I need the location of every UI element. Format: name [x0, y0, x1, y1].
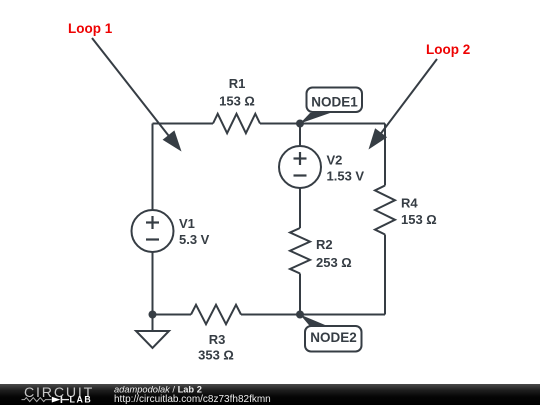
wire right rail top: [384, 124, 386, 186]
annotation Loop 1: [68, 21, 182, 152]
svg-text:153 Ω: 153 Ω: [401, 212, 437, 227]
wire right rail bottom: [384, 235, 386, 315]
node NODE1 dot: [296, 120, 304, 128]
svg-text:253 Ω: 253 Ω: [316, 255, 352, 270]
ground: [136, 315, 169, 349]
svg-text:V1: V1: [179, 216, 195, 231]
footer logo resistor-diode glyph: [22, 396, 70, 403]
svg-text:http://circuitlab.com/c8z73fh8: http://circuitlab.com/c8z73fh82fkmn: [114, 394, 271, 405]
node NODE1 callout: [300, 88, 362, 124]
resistor R1: [213, 114, 260, 133]
resistor R3: [191, 305, 241, 324]
footer title: [114, 384, 271, 405]
svg-text:NODE1: NODE1: [311, 95, 358, 110]
wire middle branch bottom: [299, 274, 301, 315]
label V1: [179, 216, 210, 247]
wire bottom right: [241, 314, 385, 316]
svg-text:NODE2: NODE2: [310, 330, 357, 345]
label V2: [327, 153, 365, 184]
annotation Loop 2: [369, 42, 471, 150]
label R4: [401, 196, 437, 228]
svg-text:Loop 2: Loop 2: [426, 42, 470, 57]
svg-text:R3: R3: [209, 332, 226, 347]
svg-text:1.53 V: 1.53 V: [327, 169, 365, 184]
wire top: [153, 123, 214, 125]
voltage source V1: [132, 210, 174, 252]
wire middle branch top: [299, 124, 301, 147]
wire bottom left: [153, 314, 192, 316]
wire middle branch mid: [299, 188, 301, 228]
svg-text:353 Ω: 353 Ω: [198, 348, 234, 363]
voltage source V2: [279, 146, 321, 188]
svg-text:R2: R2: [316, 237, 333, 252]
node NODE2 callout: [300, 315, 362, 352]
node NODE2 dot: [296, 311, 304, 319]
wire top right: [260, 123, 385, 125]
svg-text:Loop 1: Loop 1: [68, 21, 113, 36]
svg-text:adampodolak / Lab 2: adampodolak / Lab 2: [114, 384, 202, 394]
resistor R4: [375, 186, 395, 235]
node ground junction dot: [149, 311, 157, 319]
resistor R2: [290, 228, 310, 274]
svg-text:V2: V2: [327, 153, 343, 168]
label R2: [316, 237, 352, 270]
svg-text:R1: R1: [229, 76, 246, 91]
label R3: [198, 332, 234, 363]
footer bar: [0, 384, 540, 405]
svg-text:LAB: LAB: [70, 395, 93, 405]
label R1: [219, 76, 255, 109]
svg-text:153 Ω: 153 Ω: [219, 94, 255, 109]
wire left rail: [152, 124, 154, 315]
svg-text:5.3 V: 5.3 V: [179, 232, 210, 247]
svg-text:R4: R4: [401, 196, 418, 211]
